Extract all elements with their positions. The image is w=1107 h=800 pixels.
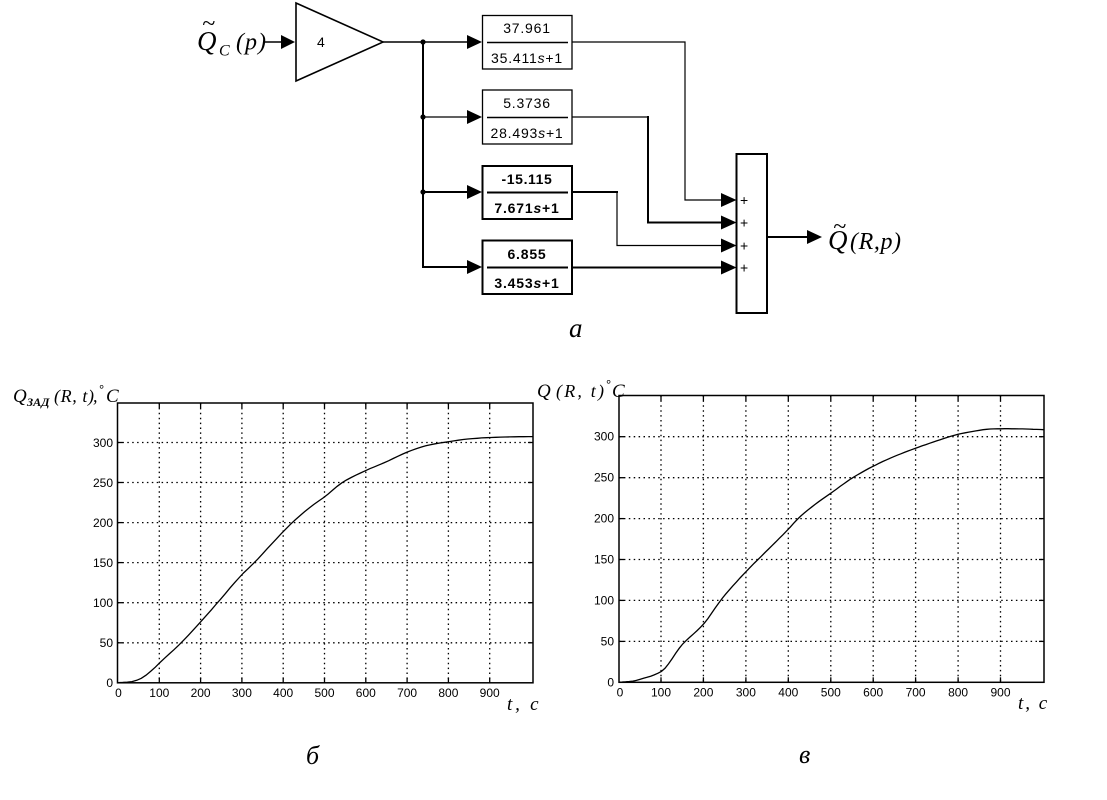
svg-text:800: 800: [438, 686, 458, 700]
svg-text:ЗАД: ЗАД: [26, 395, 50, 409]
svg-text:300: 300: [232, 686, 252, 700]
gain block 4 (triangle): [296, 3, 383, 81]
svg-text:500: 500: [314, 686, 334, 700]
right plot y tick labels: [594, 430, 614, 690]
left plot x tick labels: [115, 686, 500, 700]
svg-text:Q: Q: [537, 381, 551, 402]
svg-text:t, c: t, c: [1018, 693, 1049, 714]
svg-text:+: +: [740, 215, 748, 231]
svg-text:,: ,: [93, 386, 98, 406]
left plot y tick labels: [93, 436, 113, 690]
arrowhead into block4: [467, 260, 482, 274]
right plot x tick labels: [617, 686, 1011, 700]
svg-text:200: 200: [93, 516, 113, 530]
right plot curve: [619, 429, 1044, 682]
svg-text:600: 600: [356, 686, 376, 700]
arrowhead into block2: [467, 110, 482, 124]
right plot grid vertical dotted: [661, 396, 1001, 683]
input label Qc(p): [197, 11, 267, 60]
wire junction to block1: [423, 41, 469, 43]
wire block4 output to summer input4: [572, 267, 723, 269]
wire block2 output to summer input2: [572, 116, 647, 118]
svg-text:200: 200: [191, 686, 211, 700]
wire input to gain: [263, 41, 283, 43]
svg-text:250: 250: [594, 471, 614, 485]
wire branch to block3: [423, 191, 469, 193]
block2 fraction line: [487, 117, 568, 119]
svg-text:200: 200: [594, 512, 614, 526]
svg-text:100: 100: [93, 596, 113, 610]
svg-text:5.3736: 5.3736: [503, 95, 551, 111]
svg-text:50: 50: [100, 636, 114, 650]
svg-text:3.453s+1: 3.453s+1: [494, 275, 559, 291]
arrowhead into summer +2: [721, 216, 737, 230]
svg-text:250: 250: [93, 476, 113, 490]
svg-text:б: б: [306, 741, 320, 770]
svg-text:900: 900: [990, 686, 1010, 700]
left plot grid vertical dotted: [159, 403, 489, 683]
left plot grid horizontal dotted: [118, 443, 534, 643]
svg-text:+: +: [740, 192, 748, 208]
svg-text:(R,p): (R,p): [850, 229, 902, 255]
svg-text:+: +: [740, 260, 748, 276]
right plot grid horizontal dotted: [619, 437, 1044, 642]
junction node branch3: [420, 189, 425, 194]
svg-text:в: в: [799, 740, 810, 769]
block4 fraction line: [487, 267, 568, 269]
svg-text:+: +: [740, 238, 748, 254]
svg-text:400: 400: [273, 686, 293, 700]
block3 fraction line: [487, 192, 568, 194]
junction node at gain output: [420, 39, 425, 44]
left plot ylabel Qzad(R,t),C: [13, 382, 119, 409]
arrowhead output: [807, 230, 822, 244]
wire branch to block2: [423, 116, 469, 118]
svg-text:150: 150: [93, 556, 113, 570]
svg-text:C: C: [219, 43, 230, 60]
wire branch to block4: [423, 266, 469, 267]
svg-text:50: 50: [601, 635, 615, 649]
svg-text:700: 700: [397, 686, 417, 700]
arrowhead into summer +1: [721, 193, 737, 207]
svg-text:°: °: [99, 382, 104, 397]
wire gain output to junction: [383, 41, 423, 43]
output label Q(R,p): [828, 214, 902, 255]
trunk wire vertical: [422, 42, 424, 267]
svg-text:900: 900: [480, 686, 500, 700]
svg-text:500: 500: [821, 686, 841, 700]
svg-text:(R, t): (R, t): [54, 386, 95, 407]
arrowhead into block3: [467, 185, 482, 199]
svg-text:0: 0: [115, 686, 122, 700]
arrowhead into summer +3: [721, 239, 737, 253]
svg-text:(p): (p): [236, 30, 267, 56]
junction node branch2: [420, 114, 425, 119]
svg-text:300: 300: [736, 686, 756, 700]
svg-text:0: 0: [617, 686, 624, 700]
wire block3 output to summer input3: [572, 191, 618, 193]
arrowhead into summer +4: [721, 261, 737, 275]
left plot curve: [118, 437, 533, 683]
svg-text:t, c: t, c: [507, 694, 541, 715]
svg-text:200: 200: [693, 686, 713, 700]
arrowhead into block1: [467, 35, 482, 49]
svg-text:~: ~: [202, 11, 215, 37]
svg-text:600: 600: [863, 686, 883, 700]
svg-text:a: a: [569, 313, 583, 343]
svg-text:800: 800: [948, 686, 968, 700]
svg-text:°: °: [606, 377, 611, 392]
svg-text:~: ~: [833, 214, 846, 240]
svg-text:400: 400: [778, 686, 798, 700]
svg-text:150: 150: [594, 553, 614, 567]
right plot tick marks: [619, 396, 1044, 683]
svg-text:7.671s+1: 7.671s+1: [494, 200, 559, 216]
svg-text:Q: Q: [13, 386, 27, 407]
svg-text:100: 100: [149, 686, 169, 700]
svg-text:300: 300: [594, 430, 614, 444]
transfer block1 box: [483, 16, 573, 70]
transfer block4 box: [483, 241, 573, 295]
transfer block3 box: [483, 166, 573, 219]
summer block: [737, 154, 768, 313]
svg-text:300: 300: [93, 436, 113, 450]
svg-text:100: 100: [651, 686, 671, 700]
right plot axes box: [619, 396, 1044, 683]
svg-text:37.961: 37.961: [503, 20, 551, 36]
svg-text:6.855: 6.855: [507, 246, 546, 262]
svg-text:4: 4: [317, 34, 325, 50]
left plot axes box: [118, 403, 534, 683]
left plot tick marks: [118, 403, 534, 683]
svg-text:-15.115: -15.115: [502, 171, 553, 187]
wire summer output: [767, 236, 809, 238]
svg-text:(R, t): (R, t): [556, 381, 606, 402]
arrowhead into gain: [281, 35, 295, 49]
svg-text:100: 100: [594, 594, 614, 608]
transfer block2 box: [483, 90, 573, 144]
svg-text:0: 0: [106, 676, 113, 690]
svg-text:35.411s+1: 35.411s+1: [491, 50, 563, 66]
wire block1 output to summer input1: [572, 42, 723, 200]
svg-text:28.493s+1: 28.493s+1: [491, 125, 564, 141]
block1 fraction line: [487, 42, 568, 44]
svg-text:0: 0: [607, 676, 614, 690]
svg-text:700: 700: [906, 686, 926, 700]
right plot ylabel Q(R,t)C: [537, 377, 625, 402]
